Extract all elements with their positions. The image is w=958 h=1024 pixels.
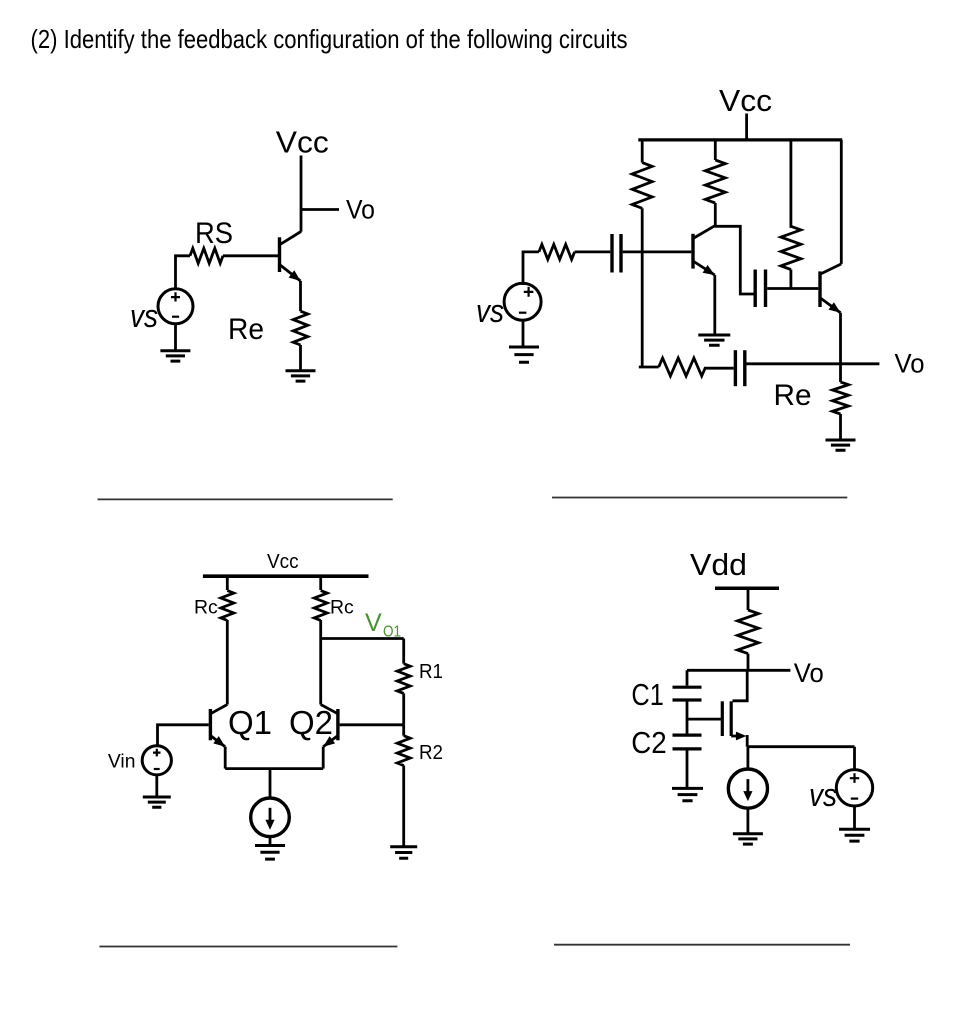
source Vin	[142, 746, 171, 775]
transistor Q1a (NPN emitter follower)	[280, 232, 302, 282]
resistor RS2 (source resistor)	[539, 244, 575, 259]
current source I2	[728, 769, 767, 808]
svg-text:V: V	[365, 609, 382, 637]
wire C1 to gate node to C2	[686, 700, 689, 735]
svg-text:RS: RS	[195, 217, 233, 250]
resistor R2	[397, 736, 410, 766]
wire emitter Q2b to output node	[839, 313, 842, 364]
wire Q2 emitter to tail rail	[322, 747, 325, 769]
wire vs to ground	[174, 324, 177, 351]
wire vs to resistor RS	[176, 256, 191, 289]
ground below Q1b emitter	[698, 335, 730, 345]
resistor R1	[397, 664, 410, 694]
svg-text:Re: Re	[228, 313, 264, 346]
node Vo1 label (green)	[365, 609, 401, 641]
wire base of Q1 to Vin	[158, 725, 209, 746]
svg-text:Vo: Vo	[895, 349, 925, 379]
capacitor C1b (input coupling)	[612, 234, 621, 273]
wire Rc left to collector Q1	[226, 620, 229, 705]
wire output node down to C1	[686, 670, 689, 685]
answer line 3	[99, 946, 397, 948]
answer line 4	[554, 944, 850, 946]
wire node to resistor R1	[402, 639, 405, 664]
transistor M1 (NMOS)	[722, 701, 747, 746]
resistor Re (circuit 1)	[293, 311, 308, 345]
svg-text:vs: vs	[476, 293, 504, 329]
svg-text:Vdd: Vdd	[690, 547, 747, 582]
wire C1b to base of Q1b	[623, 250, 692, 253]
wire rail to Rc right	[319, 576, 322, 590]
svg-text:Vcc: Vcc	[719, 83, 772, 118]
wire tail to current source	[269, 769, 272, 799]
wire R1 to divider node	[402, 693, 405, 724]
wire source node line	[747, 745, 854, 748]
wire Vin to ground	[155, 775, 158, 797]
wire Rf to feedback cap Cf	[706, 367, 734, 370]
transistor Q1b (first stage NPN)	[693, 226, 715, 275]
resistor R1b (base bias)	[632, 163, 652, 209]
svg-text:C2: C2	[631, 725, 667, 760]
capacitor C2	[673, 735, 702, 749]
ground below Re2	[826, 440, 856, 450]
wire vs to ground (circuit 2)	[522, 320, 525, 348]
wire C2b to base of Q2b	[767, 287, 818, 290]
svg-text:Vin: Vin	[108, 751, 136, 773]
wire source to current source (circuit 4)	[747, 747, 750, 770]
wire collector branch to coupling cap	[715, 226, 754, 294]
svg-text:Q2: Q2	[289, 704, 333, 741]
ground below C2 (circuit 4)	[672, 788, 703, 800]
wire Rc right to collector Q2 and output node	[319, 620, 322, 705]
wire output node to R1	[321, 637, 404, 640]
ground below vs (circuit 2)	[509, 347, 539, 362]
wire vs to ground (circuit 4)	[853, 806, 856, 829]
wire output to resistor Re2	[839, 364, 842, 383]
wire rail to bias resistor R2b	[790, 140, 793, 228]
svg-text:Rc: Rc	[330, 596, 354, 618]
wire rail to drain resistor Rd	[747, 588, 750, 610]
wire Vcc rail (circuit 3)	[203, 574, 369, 578]
wire Vcc rail (circuit 2)	[638, 138, 842, 141]
wire RS2 to input cap C1b	[575, 250, 611, 253]
wire output node line	[687, 669, 790, 672]
resistor RS	[190, 248, 223, 263]
svg-text:vs: vs	[809, 777, 837, 813]
svg-text:Re: Re	[774, 379, 812, 412]
capacitor C1	[673, 687, 702, 700]
ground below R2	[390, 847, 417, 858]
resistor R2b (stage-2 bias)	[781, 226, 801, 269]
wire Vcc stub	[745, 114, 748, 140]
resistor RC1	[705, 160, 725, 203]
capacitor C2b (interstage coupling)	[755, 270, 765, 308]
svg-text:R2: R2	[419, 742, 443, 764]
transistor Q2 (diff pair right, mirrored)	[321, 705, 338, 747]
wire rail to collector resistor RC1	[714, 140, 717, 160]
source vs (circuit 1)	[158, 289, 193, 324]
ground below vs (circuit 1)	[160, 351, 190, 361]
ground below current source (circuit 3)	[255, 846, 285, 860]
wire feedback node to feedback resistor	[639, 366, 659, 369]
wire rail to Rc left	[226, 576, 229, 590]
resistor Rf (feedback)	[659, 358, 706, 376]
wire C2 to ground	[686, 749, 689, 789]
wire emitter Q1b to ground	[713, 275, 716, 335]
svg-text:Q1: Q1	[228, 704, 272, 741]
svg-text:C1: C1	[631, 677, 663, 712]
svg-text:Rc: Rc	[194, 596, 218, 618]
capacitor Cf (feedback)	[735, 350, 744, 386]
wire output line to Vo	[747, 362, 880, 365]
wire Vo output stub	[301, 208, 339, 211]
current source I1 (tail)	[251, 798, 290, 837]
svg-text:Vo: Vo	[346, 195, 375, 225]
wire node to drain of M1	[733, 670, 748, 701]
ground below vs (circuit 4)	[839, 829, 870, 841]
ground below Vin	[143, 797, 171, 807]
resistor Rc left	[221, 591, 234, 621]
wire node to R2 and R2 to ground	[402, 725, 405, 847]
transistor Q1 (diff pair left)	[210, 705, 227, 747]
wire I2 to ground	[747, 808, 750, 834]
svg-text:vs: vs	[130, 298, 158, 334]
wire rail to bias resistor R1b	[641, 140, 644, 163]
svg-text:Vcc: Vcc	[276, 125, 329, 160]
wire gate of M1 to cap node	[687, 718, 721, 721]
wire RC1 to collector of Q1b	[714, 203, 717, 226]
wire vs to RS2	[523, 252, 539, 285]
resistor Rd	[738, 610, 759, 654]
transistor Q2b (second stage NPN)	[820, 264, 841, 313]
svg-text:Vo: Vo	[794, 658, 824, 688]
wire rail to collector of Q2b	[840, 140, 843, 264]
wire R1b to feedback node	[641, 208, 644, 367]
svg-text:(2) Identify the feedback conf: (2) Identify the feedback configuration …	[31, 24, 628, 54]
svg-text:R1: R1	[419, 661, 443, 683]
ground below Re (circuit 1)	[286, 371, 316, 381]
resistor Rc right	[314, 591, 327, 621]
source vs (circuit 2)	[504, 283, 541, 320]
wire node to vs (circuit 4)	[853, 747, 856, 770]
answer line 1	[98, 498, 393, 500]
wire Vdd rail	[715, 587, 779, 591]
wire Vcc to collector of Q1a	[300, 156, 303, 232]
wire Rd to output node	[747, 654, 750, 671]
ground below I2	[733, 834, 763, 844]
resistor Re2	[833, 382, 849, 414]
wire emitter of Q1a to Re	[299, 281, 302, 311]
wire Q1 emitter to tail rail	[224, 747, 227, 769]
wire RS to base of Q1a	[223, 254, 278, 257]
wire divider node to base of Q2	[340, 723, 404, 726]
wire tail rail	[225, 767, 323, 770]
wire R2b to base node of Q2b	[790, 270, 793, 289]
answer line 2	[552, 497, 847, 499]
wire Re2 to ground	[839, 414, 842, 440]
wire Re to ground	[299, 345, 302, 371]
source vs (circuit 4)	[836, 770, 872, 806]
wire current source to ground	[269, 837, 272, 845]
svg-text:Vcc: Vcc	[267, 550, 299, 573]
